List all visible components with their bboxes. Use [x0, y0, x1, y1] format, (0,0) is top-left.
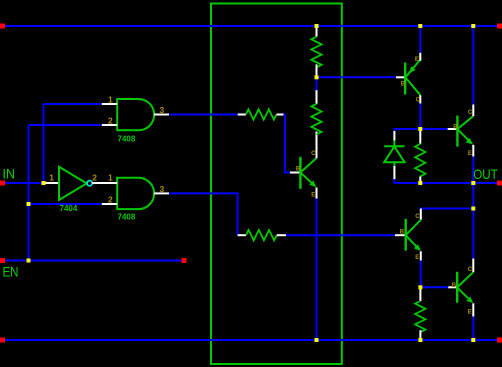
resistor R3	[311, 104, 321, 135]
svg-text:C: C	[415, 214, 420, 220]
resistor R2	[311, 37, 321, 68]
resistor R4 bottom stub	[419, 176, 421, 183]
svg-text:C: C	[416, 98, 421, 104]
U1b pin3 output stub	[154, 192, 169, 194]
svg-text:3: 3	[160, 184, 165, 194]
U1b pin1 stub	[102, 182, 117, 184]
port square top-right	[497, 24, 502, 29]
node junction GND Q5 emitter	[471, 338, 475, 342]
wire diode to OUT rail	[394, 179, 420, 183]
transistor Q2 emitter arrow	[409, 66, 416, 73]
AND gate U1b 7408 body	[117, 178, 154, 209]
transistor Q3 collector pin stub	[472, 105, 474, 117]
transistor Q2 collector diagonal	[406, 78, 421, 96]
svg-text:C: C	[311, 151, 316, 157]
wire U1a output to R1	[169, 114, 238, 116]
node junction Q4 emitter Q5 base	[418, 285, 422, 289]
transistor Q5 base bar	[456, 272, 458, 303]
transistor Q5 collector pin stub	[472, 259, 474, 273]
transistor Q1 emitter pin stub	[316, 188, 318, 199]
U1a pin1 stub	[102, 103, 117, 105]
resistor R6 bottom stub	[419, 330, 421, 340]
port square top-left	[0, 24, 5, 29]
transistor Q2 collector pin stub	[419, 95, 421, 103]
wire GND bottom rail	[5, 339, 497, 341]
node junction top rail R2	[315, 24, 319, 28]
node junction right column jog	[471, 207, 475, 211]
svg-text:B: B	[452, 283, 457, 289]
svg-text:EN: EN	[3, 264, 19, 280]
node junction OUT	[471, 181, 475, 185]
node junction between R2 R3	[315, 75, 319, 79]
inverter U2 output stub pin 2	[92, 182, 117, 184]
inverter U2 output bubble	[87, 181, 92, 186]
wire R5 to Q4 base	[286, 234, 395, 236]
wire U1b pin2 horizontal	[29, 203, 102, 205]
diode D1 cathode pin stub	[393, 131, 395, 141]
resistor R2 bottom stub	[316, 64, 318, 77]
transistor Q3 base bar	[456, 116, 458, 147]
svg-text:IN: IN	[3, 166, 15, 182]
wire node to Q5 base	[420, 286, 448, 288]
wire OUT down right column	[472, 183, 474, 209]
resistor R5 right stub	[277, 234, 286, 236]
wire Q5 emitter to GND	[472, 317, 474, 341]
transistor Q2 emitter diagonal	[406, 60, 421, 78]
diode D1 anode pin stub	[393, 166, 395, 179]
resistor R4 top stub	[419, 129, 421, 144]
transistor Q4 emitter diagonal	[406, 236, 416, 247]
wire U1a pin1 horizontal	[44, 103, 102, 105]
wire junction to Q2 base	[317, 76, 397, 78]
transistor Q1 emitter diagonal	[301, 173, 312, 183]
resistor R6	[415, 301, 425, 332]
wire EN vertical riser	[28, 125, 30, 261]
resistor R1 right stub	[277, 114, 284, 116]
diode D1 triangle	[384, 147, 404, 163]
svg-text:2: 2	[108, 116, 113, 126]
wire top rail to Q3 collector	[472, 26, 474, 105]
wire Q1 emitter to GND rail	[316, 199, 318, 341]
wire junction down to R3	[316, 77, 318, 90]
resistor R1	[246, 109, 277, 119]
resistor R3 top stub	[316, 90, 318, 104]
inverter U2 input stub pin 1	[46, 182, 60, 184]
port square EN right end	[182, 258, 187, 263]
wire right column to Q5 collector	[472, 209, 474, 259]
inverter U2 7404 triangle	[59, 167, 87, 200]
AND gate U1a 7408 body	[117, 99, 154, 130]
diode D1 cathode lead	[393, 141, 395, 147]
transistor Q4 base stub	[395, 234, 406, 236]
node IN junction	[42, 181, 46, 185]
svg-text:B: B	[296, 166, 301, 172]
svg-text:E: E	[415, 255, 419, 261]
wire VCC top rail	[5, 25, 497, 27]
svg-text:2: 2	[108, 194, 113, 204]
wire U1b output right	[169, 193, 238, 235]
resistor R5	[246, 230, 277, 240]
svg-text:1: 1	[108, 173, 113, 183]
svg-text:7404: 7404	[60, 204, 78, 213]
transistor Q5 emitter diagonal	[457, 288, 468, 299]
resistor R1 left stub	[238, 114, 246, 116]
svg-text:E: E	[468, 151, 472, 157]
svg-text:7408: 7408	[118, 213, 136, 222]
resistor R4	[415, 144, 425, 177]
port square bottom-left	[0, 338, 5, 343]
resistor R6 top stub	[419, 287, 421, 301]
transistor Q1 base stub	[290, 172, 300, 174]
wire Q3 emitter to OUT	[472, 157, 474, 184]
node junction GND Q1 emitter	[315, 338, 319, 342]
wire Q4 emitter down	[420, 261, 422, 288]
node junction Q2 collector R4 D1	[418, 127, 422, 131]
wire EN horizontal	[5, 260, 182, 262]
transistor Q3 collector diagonal	[458, 116, 474, 129]
wire top rail to Q2 emitter	[419, 26, 421, 53]
wire diode top corner	[393, 128, 395, 131]
transistor Q2 emitter pin stub	[419, 53, 421, 61]
resistor R5 left stub	[238, 234, 246, 236]
transistor Q4 collector pin stub	[420, 209, 422, 220]
U1a pin3 output stub	[154, 114, 169, 116]
wire OUT horizontal	[420, 182, 497, 184]
transistor Q5 base stub	[448, 286, 457, 288]
transistor Q4 emitter pin stub	[420, 251, 422, 260]
port square bottom-right	[497, 338, 502, 343]
svg-text:E: E	[468, 310, 472, 316]
transistor Q1 collector pin stub	[316, 132, 318, 159]
diode D1 cathode bar	[384, 145, 404, 147]
transistor Q1 collector diagonal	[301, 158, 317, 172]
U1a pin2 stub	[102, 124, 117, 126]
transistor Q1 emitter arrow	[309, 180, 316, 187]
wire IN horizontal	[5, 182, 46, 184]
svg-text:B: B	[400, 230, 405, 236]
transistor Q3 base stub	[448, 128, 458, 130]
wire node to Q3 base	[420, 128, 447, 130]
svg-text:3: 3	[160, 105, 165, 115]
transistor Q4 emitter arrow	[414, 244, 421, 251]
svg-text:OUT: OUT	[473, 166, 498, 182]
svg-text:7408: 7408	[118, 135, 136, 144]
U1b pin2 stub	[102, 203, 117, 205]
transistor Q2 base stub	[396, 76, 405, 78]
node junction U1b pin2 branch	[27, 202, 31, 206]
diode D1 anode lead	[393, 162, 395, 166]
port square EN left	[0, 258, 5, 263]
svg-text:E: E	[415, 57, 419, 63]
transistor Q3 emitter diagonal	[458, 129, 469, 140]
node EN junction	[27, 259, 31, 263]
svg-text:1: 1	[108, 95, 113, 105]
port square IN	[0, 181, 5, 186]
node junction top rail Q3	[471, 24, 475, 28]
node junction GND R6	[418, 338, 422, 342]
svg-text:C: C	[468, 267, 473, 273]
transistor Q4 base bar	[405, 219, 407, 251]
transistor Q5 collector diagonal	[457, 272, 473, 287]
svg-text:E: E	[311, 193, 315, 199]
wire Q2 collector down	[419, 104, 421, 130]
svg-text:C: C	[468, 110, 473, 116]
transistor Q5 emitter arrow	[466, 297, 473, 304]
svg-text:B: B	[401, 82, 406, 88]
transistor Q3 emitter arrow	[466, 138, 473, 145]
svg-text:B: B	[453, 125, 458, 131]
transistor Q3 emitter pin stub	[472, 145, 474, 157]
transistor Q4 collector diagonal	[406, 220, 421, 235]
transistor Q5 emitter pin stub	[472, 303, 474, 316]
transistor Q2 base bar	[404, 63, 406, 95]
port square OUT	[497, 181, 502, 186]
wire U1a pin2 horizontal	[29, 124, 102, 126]
resistor R2 top stub	[316, 26, 318, 37]
wire R1 to Q1 base	[284, 115, 291, 173]
wire jog to Q4 collector	[421, 208, 474, 210]
node junction R4 OUT	[418, 181, 422, 185]
node junction top rail Q2	[418, 24, 422, 28]
transistor Q1 base bar	[299, 157, 301, 189]
subcircuit boundary box	[211, 4, 342, 365]
wire node to diode corner	[394, 128, 420, 130]
wire IN up to U1a pin1	[43, 104, 45, 183]
svg-text:2: 2	[92, 173, 97, 183]
svg-text:1: 1	[49, 173, 54, 183]
